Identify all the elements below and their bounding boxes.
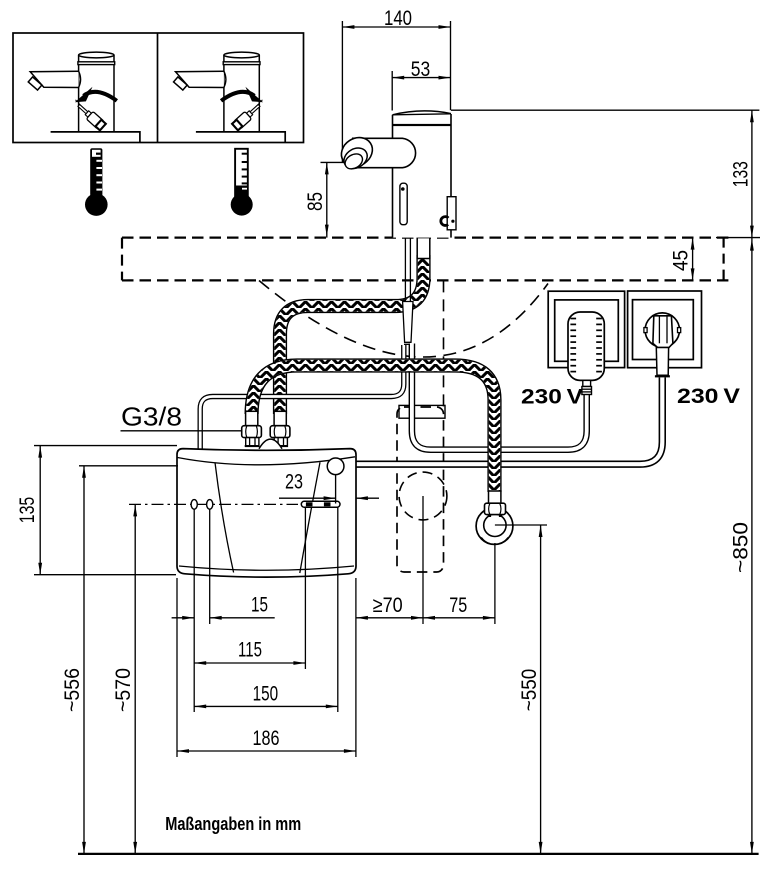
- mounting hole right: [207, 500, 213, 510]
- mounting hole left: [191, 500, 197, 510]
- dim 140: [341, 21, 343, 162]
- plug neck: [656, 348, 668, 376]
- adapter strain relief: [583, 380, 591, 386]
- water heater body: [177, 449, 356, 578]
- svg-text:45: 45: [668, 250, 692, 271]
- wall elbow ring outer: [476, 508, 513, 545]
- dim >=70 and 75: [355, 578, 357, 757]
- dim 53: [391, 71, 393, 111]
- centerline dash-dot: [129, 503, 298, 505]
- wall elbow ring inner: [484, 514, 506, 536]
- aerator face: [340, 144, 371, 173]
- svg-text:~550: ~550: [517, 669, 541, 712]
- dim 45: [692, 238, 694, 281]
- dome between fittings: [259, 439, 282, 449]
- thermometer hot (left): [90, 148, 102, 196]
- floor line: [78, 853, 759, 855]
- faucet top reference line: [451, 109, 759, 111]
- svg-text:133: 133: [728, 161, 752, 187]
- faucet spout: [30, 71, 78, 87]
- heater bottom inner curve: [179, 566, 354, 570]
- sensor faucet body: [393, 112, 452, 238]
- socket earth clips: [644, 328, 647, 333]
- svg-text:230 V: 230 V: [677, 384, 741, 408]
- dashed circle (drain zone): [399, 472, 447, 520]
- sensor cable faucet to power adapter: [412, 344, 587, 450]
- dim 150: [337, 508, 339, 713]
- hose sleeve at wall elbow: [489, 491, 501, 503]
- svg-text:~556: ~556: [60, 668, 84, 712]
- svg-text:53: 53: [411, 57, 431, 81]
- dim 85: [321, 161, 353, 163]
- heater top seam curve: [178, 457, 356, 465]
- right cell base: [196, 132, 285, 143]
- faucet cap: [393, 111, 452, 115]
- svg-text:150: 150: [253, 681, 279, 705]
- G3/8 fitting left (hose sleeve, union nut): [246, 411, 258, 425]
- G3/8 fitting right: [274, 411, 286, 425]
- instruction box frame: [13, 33, 304, 143]
- side fitting with clip: [447, 197, 456, 230]
- sensor window: [400, 183, 407, 225]
- dim ~570: [134, 504, 136, 854]
- svg-text:140: 140: [384, 6, 412, 30]
- dim 15: [193, 509, 195, 712]
- svg-text:115: 115: [238, 638, 262, 662]
- countertop dashed outline: [122, 237, 728, 239]
- dim 135: [34, 445, 177, 447]
- plug body: [653, 316, 673, 348]
- svg-text:~850: ~850: [728, 522, 752, 573]
- left 230V outlet frame: [548, 291, 624, 367]
- faucet body: [79, 55, 114, 132]
- schuko socket circle: [645, 313, 679, 347]
- cold water supply pipe (faucet to wall, down left of heater): [200, 345, 404, 449]
- right cell rotate arrow: [221, 92, 254, 101]
- heater power cable to right outlet plug: [356, 378, 662, 465]
- right 230V outlet frame: [628, 291, 702, 368]
- braided hose heater left fitting to wall elbow: [252, 366, 495, 493]
- svg-text:Maßangaben in mm: Maßangaben in mm: [165, 813, 301, 834]
- dim 133 and ~850 vertical: [751, 110, 753, 854]
- right cell screwdriver: [256, 100, 263, 108]
- svg-text:75: 75: [449, 593, 467, 617]
- left cell base: [51, 132, 140, 143]
- cable gland circle: [327, 458, 344, 475]
- dim ~550: [495, 524, 547, 526]
- aerator tip: [28, 77, 42, 90]
- svg-text:135: 135: [15, 497, 39, 524]
- svg-text:85: 85: [303, 192, 327, 211]
- faucet threaded shank and cone: [417, 238, 430, 259]
- svg-text:G3/8: G3/8: [121, 401, 182, 431]
- dim 23: [335, 475, 337, 504]
- left cell rotate arrow: [84, 92, 117, 101]
- braided hose faucet to heater right fitting (S-bend): [280, 255, 424, 414]
- union nut at wall elbow: [485, 503, 506, 514]
- thermometer cold (right): [235, 149, 248, 196]
- svg-text:~570: ~570: [111, 668, 135, 712]
- dim ~556: [79, 465, 178, 467]
- in-wall zone dashed vertical: [443, 280, 445, 407]
- svg-text:≥70: ≥70: [373, 593, 403, 617]
- outlet pipe stub: [301, 501, 340, 507]
- in-wall connection dashed box: [397, 407, 444, 572]
- aerator tip: [174, 77, 188, 90]
- faucet spout: [176, 71, 224, 87]
- spout head: [336, 132, 378, 172]
- dim 115: [304, 508, 306, 670]
- faucet spout capsule: [360, 138, 417, 168]
- basin dashed arc: [259, 281, 548, 358]
- svg-text:15: 15: [251, 592, 268, 616]
- faucet body: [224, 55, 259, 132]
- wall outlet solid small box: [399, 405, 445, 418]
- svg-text:230 V: 230 V: [521, 385, 584, 409]
- heater front contour lines: [215, 463, 234, 573]
- plug-in power adapter: [568, 312, 604, 380]
- faucet collar seam: [393, 124, 452, 126]
- svg-text:186: 186: [253, 726, 280, 750]
- svg-text:23: 23: [285, 470, 303, 494]
- left cell screwdriver: [76, 100, 83, 108]
- dim 186: [176, 578, 178, 757]
